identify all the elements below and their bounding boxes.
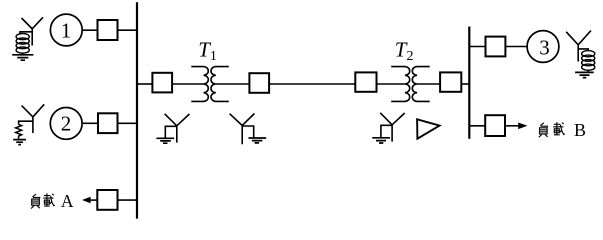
- wire T1 to breaker B: [216, 83, 250, 85]
- generator G1 circle: [50, 14, 82, 46]
- load A box: [97, 190, 117, 210]
- generator G2 circle: [50, 108, 82, 140]
- wire breaker C to T2: [377, 83, 405, 85]
- svg-text:1: 1: [61, 18, 72, 42]
- wire breaker to G3: [505, 46, 527, 48]
- svg-text:B: B: [574, 120, 586, 140]
- G1 ground: [12, 55, 33, 60]
- load B text 負: [539, 123, 548, 137]
- transformer T1 primary winding: [191, 67, 208, 102]
- wire breaker D to right bus: [461, 83, 469, 85]
- load A arrow: [82, 197, 91, 203]
- G3 ground: [575, 72, 594, 77]
- T2 secondary delta symbol: [417, 119, 439, 138]
- T1 secondary wye-ground symbol: [230, 114, 267, 145]
- breaker box G2: [98, 113, 118, 133]
- wire load A box to left bus: [118, 199, 138, 201]
- G1 coil to ground wire: [22, 53, 24, 54]
- breaker box D: [440, 72, 461, 91]
- breaker box G1: [98, 20, 118, 40]
- wire breaker to left bus: [118, 29, 138, 31]
- G1 grounding inductor coil: [16, 34, 29, 54]
- wire T2 to breaker D: [417, 83, 440, 85]
- G2 grounding resistor: [16, 124, 22, 138]
- wire right bus to load B box: [469, 125, 485, 127]
- load A text 負: [31, 194, 40, 208]
- G2 neutral connector wire: [19, 121, 33, 124]
- wire left bus to breaker A: [137, 83, 152, 85]
- T1 primary wye-ground symbol: [156, 114, 189, 143]
- G3 coil to ground wire: [587, 70, 589, 72]
- breaker box G3: [486, 37, 506, 57]
- transformer T1 secondary winding: [211, 67, 229, 102]
- breaker box B: [249, 73, 269, 93]
- generator G1 wye symbol: [22, 17, 44, 45]
- generator G3 circle: [527, 31, 559, 63]
- breaker box A: [152, 73, 172, 93]
- svg-text:T2: T2: [395, 38, 414, 65]
- transformer T2 primary winding: [391, 67, 410, 102]
- load B text 載: [553, 122, 565, 135]
- G3 grounding inductor coil: [582, 51, 595, 71]
- transmission line T1-T2: [269, 83, 355, 85]
- load A text 載: [43, 193, 55, 206]
- G3 neutral connector wire: [578, 49, 588, 51]
- load B box: [485, 115, 505, 136]
- svg-text:2: 2: [61, 112, 72, 136]
- G1 neutral connector wire: [20, 32, 32, 34]
- generator G2 wye symbol: [22, 104, 45, 133]
- wire right bus to breaker G3: [469, 46, 485, 48]
- right bus: [468, 27, 470, 139]
- G2 ground: [13, 140, 26, 145]
- wire G1 to breaker: [82, 29, 97, 31]
- transformer T2 secondary winding: [412, 67, 429, 102]
- wire breaker to left bus: [118, 122, 138, 124]
- generator G3 wye symbol: [566, 31, 591, 62]
- breaker box C: [355, 72, 376, 91]
- svg-text:3: 3: [539, 35, 550, 59]
- load B arrow: [505, 125, 519, 127]
- svg-text:A: A: [61, 191, 74, 211]
- svg-text:T1: T1: [198, 38, 217, 65]
- wire breaker A to T1: [172, 83, 203, 85]
- T2 primary wye-ground symbol: [372, 113, 404, 143]
- wire G2 to breaker: [82, 122, 98, 124]
- left bus: [136, 2, 138, 218]
